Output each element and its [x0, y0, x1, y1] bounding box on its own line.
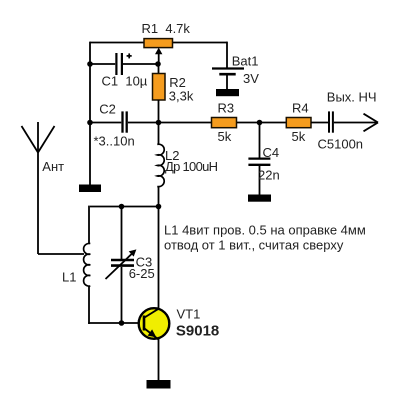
node wiper — [155, 61, 161, 67]
resistor R3 — [212, 101, 237, 144]
svg-text:R1 4.7k: R1 4.7k — [142, 21, 191, 36]
wire battery drop — [226, 42, 228, 68]
node C2 left — [87, 120, 93, 126]
node C4 top — [257, 120, 263, 126]
svg-text:5k: 5k — [292, 129, 306, 144]
svg-text:22n: 22n — [258, 168, 280, 183]
node C2 right — [156, 120, 162, 126]
antenna — [22, 122, 65, 254]
capacitor C3 (variable) — [106, 207, 155, 324]
note text — [164, 223, 366, 253]
wire base rail — [88, 322, 144, 324]
svg-text:*3..10n: *3..10n — [94, 134, 135, 149]
wire collector rail — [158, 207, 160, 310]
svg-text:C2: C2 — [99, 102, 116, 117]
svg-text:Др 100uH: Др 100uH — [165, 159, 218, 174]
capacitor C5 — [318, 111, 364, 151]
svg-text:Вых. НЧ: Вых. НЧ — [327, 90, 377, 105]
svg-text:R4: R4 — [292, 101, 309, 116]
ground emitter — [147, 380, 171, 389]
wire top rail right — [172, 42, 227, 44]
wire mid rail to R3 — [159, 122, 212, 124]
wire antenna tap — [38, 253, 84, 255]
inductor L2 — [157, 123, 218, 208]
potentiometer R1 wiper arrow — [155, 48, 162, 64]
node L2 bottom — [156, 204, 162, 210]
svg-text:VT1: VT1 — [177, 307, 201, 322]
capacitor C1 — [90, 53, 158, 89]
output arrow net Вых. НЧ — [327, 90, 378, 132]
svg-text:R3: R3 — [218, 101, 235, 116]
svg-text:C5100n: C5100n — [318, 136, 364, 151]
svg-text:C4: C4 — [263, 145, 280, 160]
svg-text:Ант: Ант — [42, 159, 64, 174]
ground battery — [216, 89, 239, 96]
transistor VT1 — [139, 307, 220, 340]
wire emitter — [158, 338, 160, 380]
ground C4 — [248, 195, 271, 202]
svg-text:L1: L1 — [62, 269, 76, 284]
resistor R2 — [153, 64, 194, 123]
svg-text:5k: 5k — [218, 129, 232, 144]
svg-text:C1 10µ: C1 10µ — [102, 74, 148, 89]
capacitor C2 — [90, 102, 159, 149]
node C1 left — [87, 61, 93, 67]
svg-text:L1 4вит пров. 0.5 на оправке 4: L1 4вит пров. 0.5 на оправке 4мм — [164, 223, 366, 238]
svg-text:6-25: 6-25 — [129, 266, 155, 281]
svg-text:3V: 3V — [243, 71, 259, 86]
svg-text:отвод от 1 вит., считая сверху: отвод от 1 вит., считая сверху — [164, 238, 344, 253]
wire left rail — [89, 42, 91, 185]
battery Bat1 — [212, 53, 259, 89]
resistor R4 — [286, 101, 311, 144]
node C3 bottom — [119, 320, 125, 326]
capacitor C4 — [248, 123, 279, 196]
svg-text:Bat1: Bat1 — [232, 53, 259, 68]
svg-text:3,3k: 3,3k — [169, 88, 194, 103]
node C3 top — [119, 204, 125, 210]
ground left rail — [79, 185, 101, 193]
wire R4 to C5 — [311, 122, 328, 124]
wire tank top rail — [90, 206, 159, 208]
wire top rail left — [90, 42, 144, 44]
svg-text:S9018: S9018 — [176, 323, 219, 340]
resistor R1 (potentiometer) — [142, 21, 191, 48]
inductor L1 — [62, 206, 90, 324]
wire R3 to R4 — [237, 122, 286, 124]
